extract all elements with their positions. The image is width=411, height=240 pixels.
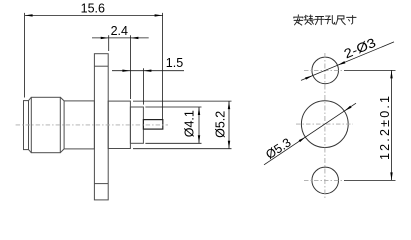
svg-text:12.2±0.1: 12.2±0.1: [378, 96, 392, 160]
svg-text:Ø4.1: Ø4.1: [183, 110, 197, 137]
svg-text:15.6: 15.6: [81, 2, 105, 16]
svg-text:Ø5.2: Ø5.2: [214, 111, 228, 138]
svg-text:2-Ø3: 2-Ø3: [342, 35, 378, 61]
svg-text:1.5: 1.5: [166, 56, 183, 70]
svg-text:Ø5.3: Ø5.3: [263, 135, 293, 162]
svg-text:2.4: 2.4: [111, 24, 128, 38]
